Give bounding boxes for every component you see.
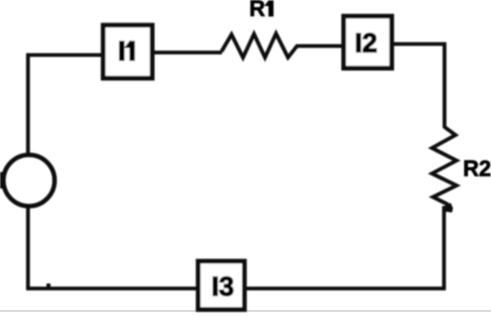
svg-text:R2: R2 [463, 156, 491, 181]
svg-text:I2: I2 [355, 28, 378, 58]
svg-text:R: R [249, 0, 265, 21]
svg-text:I3: I3 [212, 271, 235, 301]
